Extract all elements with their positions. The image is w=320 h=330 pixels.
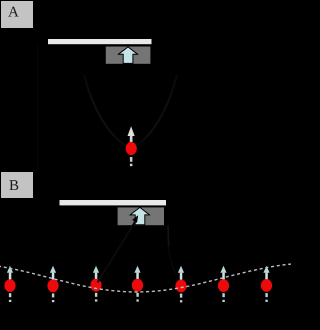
svg-text:A: A — [8, 5, 19, 21]
svg-text:B: B — [9, 178, 19, 194]
